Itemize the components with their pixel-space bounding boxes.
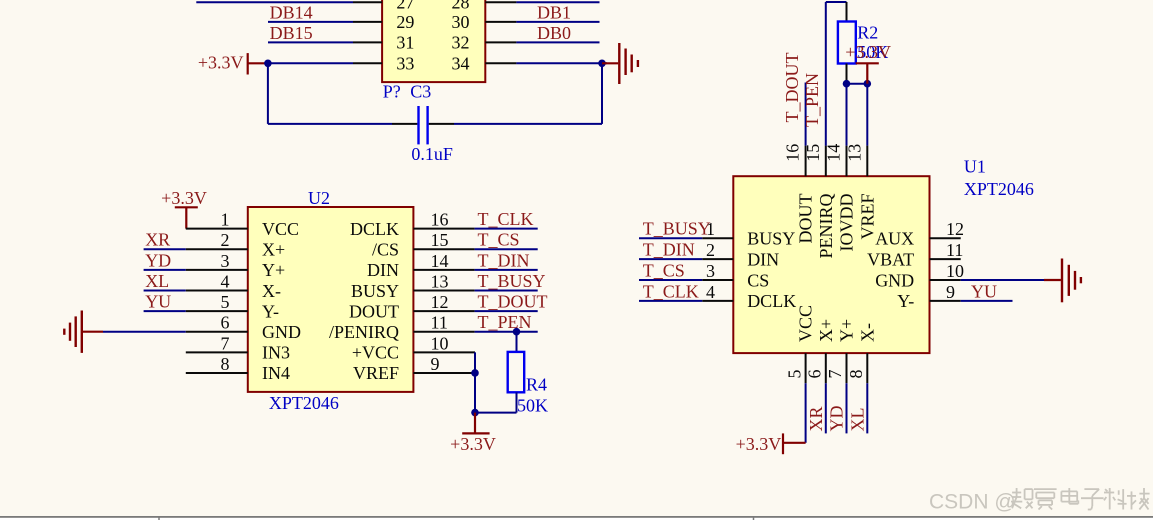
svg-text:CSDN @: CSDN @ [929, 491, 1016, 514]
svg-text:15: 15 [803, 144, 823, 162]
op-amp U1 body [733, 176, 929, 353]
svg-text:AUX: AUX [875, 229, 914, 249]
svg-text:7: 7 [221, 333, 230, 353]
U2 pin 1 lead [186, 228, 248, 230]
wire R4 top [516, 332, 518, 352]
svg-text:U1: U1 [964, 157, 986, 177]
U1 pin 9 lead [930, 300, 961, 302]
U2 pin 12 lead [413, 310, 474, 312]
svg-text:X+: X+ [816, 319, 836, 342]
svg-text:YU: YU [145, 292, 171, 312]
svg-text:10: 10 [431, 333, 449, 353]
svg-text:DIN: DIN [367, 260, 399, 280]
U1 pin 1 lead [702, 237, 733, 239]
svg-text:X+: X+ [262, 240, 285, 260]
svg-text:DB1: DB1 [537, 2, 571, 22]
wire T_DOUT [475, 310, 538, 312]
U2 pin 9 lead [413, 372, 475, 374]
ground (left) [64, 311, 103, 353]
svg-text:U2: U2 [308, 188, 330, 208]
wire pin14-pin13 [847, 83, 868, 85]
watermark glyph shu [1012, 492, 1021, 494]
svg-text:+3.3V: +3.3V [736, 434, 782, 454]
svg-text:T_CLK: T_CLK [478, 209, 534, 229]
wire from pin 28 [516, 1, 599, 3]
U1 pin 2 lead [702, 258, 733, 260]
U1 pin 4 lead [702, 300, 733, 302]
svg-text:PENIRQ: PENIRQ [816, 194, 836, 259]
junction at +3.3V (below R4) [471, 409, 479, 417]
svg-text:10: 10 [946, 261, 964, 281]
svg-text:T_BUSY: T_BUSY [643, 219, 711, 239]
svg-text:+3.3V: +3.3V [161, 188, 207, 208]
U1 pin 14 lead [846, 146, 848, 177]
U2 pin 10 lead [413, 351, 475, 353]
watermark glyph zi [1084, 488, 1099, 490]
wire pin 34 to ground [516, 62, 607, 64]
svg-text:4: 4 [221, 271, 230, 291]
svg-text:15: 15 [431, 230, 449, 250]
U2 pin 15 lead [413, 248, 474, 250]
svg-text:DB15: DB15 [270, 23, 313, 43]
ground (right) [1062, 259, 1081, 303]
sheet bottom border [0, 516, 1153, 518]
svg-text:IN4: IN4 [262, 363, 290, 383]
svg-text:16: 16 [783, 144, 803, 162]
U2 pin 2 lead [186, 248, 248, 250]
wire T_PEN (U1 pin15) [825, 2, 827, 146]
svg-text:CS: CS [747, 270, 769, 290]
svg-text:5: 5 [784, 370, 804, 379]
svg-text:Y-: Y- [262, 301, 279, 321]
wire YU [144, 310, 186, 312]
svg-text:8: 8 [846, 370, 866, 379]
svg-text:VREF: VREF [353, 363, 399, 383]
wire T_CS [639, 279, 702, 281]
pin 28 lead [485, 1, 516, 3]
U1 pin 11 lead [930, 258, 961, 260]
wire YD (U1) [846, 383, 848, 433]
power +3.3V (U2 pin 1) [161, 188, 207, 229]
power +3.3V (bottom of U1) [736, 433, 806, 454]
svg-text:XPT2046: XPT2046 [964, 179, 1034, 199]
wire down-left of C3 [267, 63, 269, 124]
U1 pin 15 lead [825, 146, 827, 177]
svg-text:8: 8 [221, 354, 230, 374]
svg-text:32: 32 [452, 33, 470, 53]
border tick 1 [158, 516, 160, 520]
svg-text:9: 9 [946, 282, 955, 302]
svg-text:0.1uF: 0.1uF [411, 144, 453, 164]
svg-text:12: 12 [431, 292, 449, 312]
U1 pin 13 lead [866, 146, 868, 177]
svg-text:XR: XR [145, 230, 170, 250]
svg-text:DB14: DB14 [270, 2, 313, 22]
svg-text:T_DOUT: T_DOUT [782, 53, 802, 123]
pin 29 lead [353, 21, 382, 23]
op-amp U2 body [248, 207, 414, 392]
svg-text:34: 34 [452, 54, 470, 74]
wire T_PEN [475, 331, 538, 333]
wire T_DIN [475, 269, 538, 271]
wire pin 6 to ground [103, 331, 186, 333]
wire pin9 down [474, 373, 476, 413]
U2 pin 3 lead [186, 269, 248, 271]
svg-text:/CS: /CS [372, 240, 399, 260]
svg-text:2: 2 [221, 230, 230, 250]
U2 pin 6 lead [186, 331, 248, 333]
U2 pin 5 lead [186, 310, 248, 312]
wire pin5 to +3.3V [805, 383, 807, 443]
U1 pin 5 lead [805, 353, 807, 383]
svg-text:R2: R2 [857, 22, 878, 42]
svg-text:GND: GND [875, 270, 914, 290]
wire pin14 up [846, 84, 848, 146]
ground stub (top right) [602, 62, 618, 64]
svg-text:1: 1 [706, 219, 715, 239]
power +3.3V (top of U1) [845, 42, 891, 84]
svg-text:7: 7 [825, 370, 845, 379]
wire XR [144, 248, 186, 250]
svg-text:28: 28 [452, 0, 470, 13]
wire DB1 [516, 21, 599, 23]
svg-text:T_BUSY: T_BUSY [478, 271, 546, 291]
wire XL (U1) [866, 383, 868, 433]
U2 pin 7 lead [186, 351, 248, 353]
svg-text:VCC: VCC [262, 219, 299, 239]
wire loop to R2 top [826, 1, 847, 3]
U1 pin 7 lead [846, 353, 848, 383]
svg-text:27: 27 [396, 0, 414, 13]
wire XR (U1) [825, 383, 827, 433]
svg-text:14: 14 [431, 251, 449, 271]
wire R4 bottom [516, 392, 518, 412]
junction R2 bottom [843, 80, 851, 88]
U1 pin 6 lead [825, 353, 827, 383]
svg-text:T_PEN: T_PEN [802, 73, 822, 127]
watermark glyph jia [1034, 488, 1057, 490]
svg-text:T_CLK: T_CLK [643, 281, 699, 301]
svg-text:GND: GND [262, 322, 301, 342]
junction at +3.3V [264, 60, 272, 68]
svg-text:+3.3V: +3.3V [450, 434, 496, 454]
wire pin 10 to ground [961, 279, 1044, 281]
svg-text:33: 33 [396, 54, 414, 74]
wire R4 to +3.3V [475, 412, 517, 414]
pin 34 lead [485, 62, 516, 64]
U2 pin 4 lead [186, 289, 248, 291]
ground stub (right) [1044, 279, 1061, 281]
svg-text:R4: R4 [526, 374, 547, 394]
svg-text:+VCC: +VCC [352, 343, 399, 363]
junction at pin 34 [598, 60, 606, 68]
svg-text:13: 13 [431, 271, 449, 291]
svg-text:C3: C3 [410, 82, 431, 102]
wire T_CLK [475, 228, 538, 230]
connector P? body [382, 0, 485, 82]
svg-text:4: 4 [706, 282, 715, 302]
pin 27 lead [353, 1, 382, 3]
svg-text:Y+: Y+ [262, 260, 285, 280]
pin 31 lead [353, 41, 382, 43]
svg-text:+3.3V: +3.3V [845, 42, 891, 62]
ground (top right) [619, 43, 638, 84]
svg-text:XL: XL [145, 271, 169, 291]
svg-text:DB0: DB0 [537, 23, 571, 43]
svg-text:29: 29 [396, 12, 414, 32]
svg-text:T_PEN: T_PEN [478, 312, 532, 332]
svg-text:6: 6 [221, 313, 230, 333]
svg-text:DCLK: DCLK [747, 291, 796, 311]
svg-text:30: 30 [452, 12, 470, 32]
wire T_BUSY [639, 237, 702, 239]
U2 pin 8 lead [186, 372, 248, 374]
power +3.3V (below R4) [450, 413, 496, 454]
svg-text:Y+: Y+ [837, 319, 857, 342]
U2 pin 16 lead [413, 228, 474, 230]
svg-text:3: 3 [221, 251, 230, 271]
wire DB15 [268, 41, 353, 43]
svg-text:1: 1 [221, 210, 230, 230]
svg-text:IOVDD: IOVDD [837, 194, 857, 252]
wire to C3 left [268, 123, 392, 125]
wire pin13 up [866, 84, 868, 146]
junction pin 9 [471, 369, 479, 377]
U1 pin 3 lead [702, 279, 733, 281]
svg-text:YU: YU [971, 281, 997, 301]
svg-text:VBAT: VBAT [867, 249, 914, 269]
area below border [0, 518, 1153, 520]
svg-text:BUSY: BUSY [351, 281, 399, 301]
svg-text:DCLK: DCLK [350, 219, 399, 239]
svg-text:P?: P? [383, 82, 401, 102]
wire +3.3V to pin 33 [268, 62, 353, 64]
svg-text:2: 2 [706, 240, 715, 260]
junction pin13 top [864, 80, 872, 88]
svg-text:Y-: Y- [897, 291, 914, 311]
svg-text:+3.3V: +3.3V [198, 52, 244, 72]
svg-text:VREF: VREF [857, 194, 877, 240]
svg-text:11: 11 [431, 313, 448, 333]
svg-text:DOUT: DOUT [349, 301, 399, 321]
capacitor C3 [392, 106, 454, 144]
svg-text:T_DIN: T_DIN [478, 250, 530, 270]
svg-text:XR: XR [806, 406, 826, 431]
svg-text:13: 13 [844, 144, 864, 162]
svg-text:16: 16 [431, 210, 449, 230]
svg-text:5: 5 [221, 292, 230, 312]
wire up-right of C3 [601, 63, 603, 124]
wire DB0 [516, 41, 599, 43]
svg-text:IN3: IN3 [262, 343, 290, 363]
svg-text:T_DIN: T_DIN [643, 240, 695, 260]
svg-text:DOUT: DOUT [796, 194, 816, 244]
wire YU (U1 pin 9) [961, 300, 1013, 302]
svg-text:31: 31 [396, 33, 414, 53]
U1 pin 16 lead [805, 146, 807, 177]
svg-text:14: 14 [824, 144, 844, 162]
pin 33 lead [353, 62, 382, 64]
svg-text:12: 12 [946, 219, 964, 239]
svg-text:9: 9 [431, 354, 440, 374]
svg-text:T_DOUT: T_DOUT [478, 292, 548, 312]
svg-text:50K: 50K [517, 395, 548, 415]
wire T_CS [475, 248, 538, 250]
U2 pin 13 lead [413, 289, 474, 291]
svg-text:11: 11 [946, 240, 963, 260]
svg-text:VCC: VCC [796, 305, 816, 342]
U1 pin 12 lead [930, 237, 961, 239]
wire pin10 down [474, 352, 476, 373]
junction T_PEN/R4 [513, 328, 521, 336]
svg-text:BUSY: BUSY [747, 229, 795, 249]
pin 30 lead [485, 21, 516, 23]
svg-text:T_CS: T_CS [478, 230, 520, 250]
wire T_DIN [639, 258, 702, 260]
svg-text:YD: YD [145, 250, 171, 270]
wire DB14 [268, 21, 353, 23]
U2 pin 11 lead [413, 331, 474, 333]
svg-text:3: 3 [706, 261, 715, 281]
power +3.3V (left of P?) [198, 52, 268, 74]
wire from C3 right [454, 123, 602, 125]
svg-text:X-: X- [262, 281, 281, 301]
U1 pin 10 lead [930, 279, 961, 281]
border tick 2 [753, 516, 755, 520]
svg-text:/PENIRQ: /PENIRQ [329, 322, 399, 342]
svg-text:T_CS: T_CS [643, 261, 685, 281]
resistor R4 [508, 352, 525, 392]
wire T_CLK [639, 300, 702, 302]
U1 pin 8 lead [866, 353, 868, 383]
wire T_BUSY [475, 289, 538, 291]
svg-text:X-: X- [857, 323, 877, 342]
svg-text:6: 6 [805, 370, 825, 379]
U2 pin 14 lead [413, 269, 474, 271]
watermark glyph dian [1068, 488, 1070, 504]
wire XL [144, 289, 186, 291]
wire to pin 27 [196, 1, 353, 3]
svg-text:XPT2046: XPT2046 [269, 393, 339, 413]
resistor R2 [838, 2, 856, 84]
watermark glyph ji [1131, 491, 1133, 509]
svg-text:DIN: DIN [747, 249, 779, 269]
svg-text:YD: YD [827, 406, 847, 432]
pin 32 lead [485, 41, 516, 43]
watermark glyph ke [1104, 492, 1114, 494]
svg-text:XL: XL [847, 408, 867, 432]
wire T_DOUT (U1 pin16) [805, 83, 807, 146]
wire YD [144, 269, 186, 271]
